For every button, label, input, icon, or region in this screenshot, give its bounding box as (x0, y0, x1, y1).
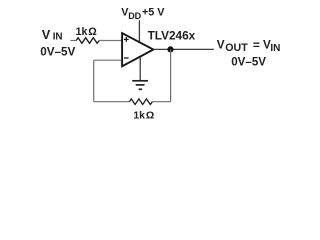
svg-text:IN: IN (270, 43, 280, 54)
wire feedback bottom left segment (94, 101, 130, 103)
svg-text:1k Ω: 1k Ω (76, 26, 98, 38)
op-amp + input marker (124, 37, 129, 42)
svg-text:0V–5V: 0V–5V (40, 46, 75, 59)
svg-text:DD: DD (128, 11, 141, 21)
svg-text:OUT: OUT (225, 42, 248, 54)
node VIN label (42, 27, 63, 43)
svg-text:0V–5V: 0V–5V (231, 55, 266, 68)
svg-text:=: = (253, 38, 260, 52)
wire op-amp output to VOUT (153, 48, 213, 50)
wire VDD supply stub (138, 20, 140, 42)
ground (op-amp VSS) (132, 57, 148, 89)
resistor 1k (feedback) (129, 99, 152, 105)
wire - input to feedback corner (94, 59, 122, 61)
svg-text:+5 V: +5 V (142, 7, 165, 19)
svg-text:IN: IN (53, 31, 63, 42)
wire feedback bottom right segment (152, 101, 170, 103)
svg-text:V: V (42, 27, 51, 42)
net label VDD +5V (121, 7, 165, 21)
op-amp - input marker (124, 57, 129, 59)
junction dot output node (167, 46, 173, 52)
resistor 1k (input) (76, 38, 99, 44)
svg-text:V: V (217, 39, 225, 52)
wire feedback right vertical to output node (170, 49, 172, 101)
wire feedback left vertical (93, 60, 95, 101)
svg-text:TLV246x: TLV246x (148, 28, 196, 42)
op-amp U1 TLV246x triangle (122, 33, 153, 66)
wire resistor to op-amp + input (99, 40, 121, 42)
svg-text:1k Ω: 1k Ω (133, 111, 154, 122)
wire VIN lead to resistor (70, 40, 76, 42)
node VOUT label (217, 38, 281, 54)
